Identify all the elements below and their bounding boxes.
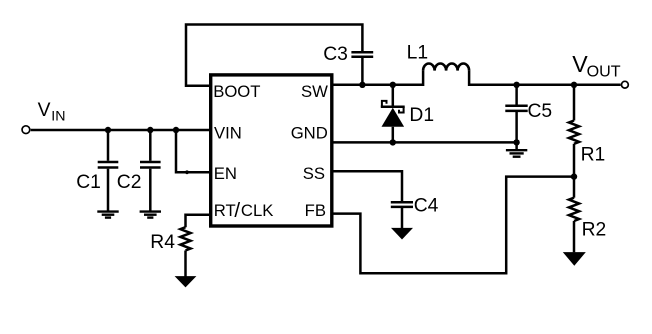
svg-text:C5: C5 bbox=[528, 101, 553, 122]
svg-text:L1: L1 bbox=[407, 42, 428, 63]
svg-text:C2: C2 bbox=[117, 172, 142, 193]
svg-text:IN: IN bbox=[51, 108, 65, 124]
svg-text:V: V bbox=[38, 100, 51, 121]
svg-text:SW: SW bbox=[301, 82, 328, 101]
svg-text:CLK: CLK bbox=[241, 201, 273, 220]
svg-text:/: / bbox=[234, 199, 240, 222]
svg-text:R1: R1 bbox=[581, 145, 606, 166]
svg-text:C4: C4 bbox=[414, 196, 439, 217]
svg-text:BOOT: BOOT bbox=[213, 82, 260, 101]
svg-text:C3: C3 bbox=[323, 44, 348, 65]
svg-text:EN: EN bbox=[214, 164, 237, 183]
svg-text:D1: D1 bbox=[409, 105, 434, 126]
svg-text:RT: RT bbox=[214, 201, 236, 220]
svg-text:GND: GND bbox=[291, 124, 328, 143]
svg-text:VIN: VIN bbox=[214, 124, 242, 143]
svg-text:R4: R4 bbox=[150, 232, 175, 253]
svg-text:SS: SS bbox=[303, 164, 325, 183]
svg-text:FB: FB bbox=[305, 201, 326, 220]
svg-text:OUT: OUT bbox=[587, 63, 621, 81]
svg-text:R2: R2 bbox=[582, 219, 607, 240]
svg-text:C1: C1 bbox=[76, 172, 101, 193]
